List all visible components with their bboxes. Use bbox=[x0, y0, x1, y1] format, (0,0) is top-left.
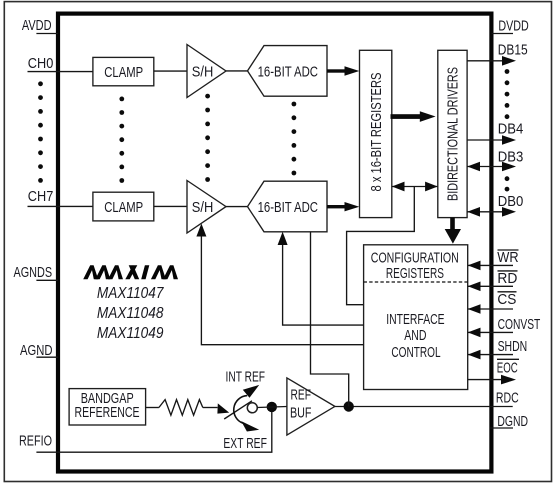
configuration registers / interface and control block bbox=[364, 245, 468, 390]
node dots ADC column bbox=[292, 102, 297, 176]
S/H amplifier 1 bbox=[187, 45, 226, 98]
wire DB4 output arrow bbox=[467, 135, 516, 145]
svg-text:AND: AND bbox=[404, 328, 426, 344]
wire S/H2 to ADC2 bbox=[226, 206, 248, 208]
node dots DB3..DB0 bbox=[505, 176, 510, 191]
ref buffer amplifier bbox=[287, 378, 335, 435]
bus arrow registers to drivers bbox=[391, 111, 436, 122]
wire ref buffer output to ADC2 reference bbox=[311, 232, 349, 407]
svg-text:RD: RD bbox=[497, 271, 517, 287]
wire DB15 output arrow bbox=[467, 56, 516, 66]
switch contact circle bbox=[247, 403, 257, 413]
bidirectional bus arrow registers/drivers bbox=[392, 182, 438, 192]
bus arrow drivers to configuration registers bbox=[445, 218, 461, 244]
svg-text:BUF: BUF bbox=[290, 406, 312, 422]
wire ADC2 control bbox=[278, 232, 364, 325]
svg-text:RDC: RDC bbox=[496, 391, 519, 407]
wire AGNDS stub bbox=[36, 279, 58, 281]
svg-text:AVDD: AVDD bbox=[22, 18, 52, 34]
svg-text:REF: REF bbox=[291, 387, 312, 403]
svg-text:INTERFACE: INTERFACE bbox=[386, 312, 445, 328]
wire AVDD stub bbox=[36, 33, 58, 35]
wire registers tap to interface bbox=[347, 187, 415, 305]
wire CH0 to clamp bbox=[28, 71, 93, 73]
pin RDC bbox=[496, 391, 519, 407]
wire CH7 to clamp bbox=[28, 205, 93, 207]
Maxim logo bbox=[83, 265, 178, 279]
pin DGND bbox=[490, 414, 528, 430]
svg-text:MAX11049: MAX11049 bbox=[97, 325, 164, 342]
wire reference output to RDC bbox=[335, 406, 513, 408]
ADC block 1 (16-BIT ADC) bbox=[248, 46, 328, 97]
node dots CH0..CH7 bbox=[38, 81, 43, 182]
svg-text:S/H: S/H bbox=[192, 200, 214, 216]
clamp block 2 bbox=[93, 192, 154, 221]
wire resistor to switch pole bbox=[203, 407, 218, 409]
svg-text:DB0: DB0 bbox=[498, 194, 524, 210]
bandgap reference block bbox=[69, 389, 146, 425]
svg-text:REGISTERS: REGISTERS bbox=[386, 266, 444, 282]
svg-text:CONVST: CONVST bbox=[498, 317, 541, 333]
svg-text:CLAMP: CLAMP bbox=[104, 65, 143, 81]
svg-text:WR: WR bbox=[497, 250, 518, 266]
svg-text:SHDN: SHDN bbox=[498, 339, 528, 355]
junction dot ref buffer input bbox=[267, 402, 277, 412]
resistor (reference series) bbox=[159, 400, 203, 416]
wire switch to ref buffer bbox=[257, 407, 287, 408]
switch arrowhead INT REF bbox=[243, 385, 259, 398]
svg-text:EXT REF: EXT REF bbox=[223, 436, 267, 452]
junction dot ref buffer output bbox=[344, 401, 354, 411]
svg-text:DVDD: DVDD bbox=[498, 19, 528, 35]
svg-text:CLAMP: CLAMP bbox=[104, 200, 143, 216]
svg-text:16-BIT ADC: 16-BIT ADC bbox=[258, 64, 318, 80]
wire S/H2 control bbox=[196, 224, 363, 345]
wire clamp1 to S/H1 bbox=[154, 70, 187, 72]
clamp block 1 bbox=[93, 57, 154, 85]
svg-text:8 x 16-BIT REGISTERS: 8 x 16-BIT REGISTERS bbox=[369, 72, 385, 191]
switch arrowhead EXT REF bbox=[241, 421, 259, 431]
svg-text:CH0: CH0 bbox=[28, 56, 54, 72]
wire DB3 bidirectional arrow bbox=[467, 162, 516, 172]
wire DVDD stub bbox=[491, 33, 513, 35]
node dots DB15..DB4 bbox=[505, 69, 510, 119]
node dots S/H column bbox=[205, 94, 210, 182]
ADC block 2 (16-BIT ADC) bbox=[248, 181, 328, 232]
wire bandgap to resistor bbox=[146, 407, 159, 409]
wire REFIO to ref buffer input bbox=[36, 407, 271, 452]
svg-text:REFERENCE: REFERENCE bbox=[75, 405, 140, 421]
svg-text:DB4: DB4 bbox=[498, 121, 524, 137]
svg-text:CONFIGURATION: CONFIGURATION bbox=[371, 250, 459, 266]
wire AGND stub bbox=[36, 356, 58, 358]
node dots clamp column bbox=[119, 97, 124, 183]
chip outline (IC boundary) bbox=[58, 14, 491, 472]
register bank (8 x 16-BIT REGISTERS) bbox=[360, 50, 392, 217]
svg-text:MAX11047: MAX11047 bbox=[97, 285, 165, 302]
pin WR (active low) bbox=[468, 250, 519, 270]
svg-text:CH7: CH7 bbox=[28, 189, 54, 205]
pin RD (active low) bbox=[468, 271, 518, 291]
svg-text:INT REF: INT REF bbox=[226, 370, 266, 386]
svg-text:EOC: EOC bbox=[497, 361, 518, 377]
S/H amplifier 2 bbox=[187, 181, 226, 234]
svg-text:REFIO: REFIO bbox=[19, 434, 52, 450]
svg-text:S/H: S/H bbox=[192, 64, 214, 80]
bus arrow ADC1 to registers bbox=[327, 66, 359, 75]
svg-text:16-BIT ADC: 16-BIT ADC bbox=[258, 200, 318, 216]
svg-text:MAX11048: MAX11048 bbox=[97, 305, 164, 322]
switch pole arrowhead bbox=[217, 403, 229, 413]
bidirectional drivers block bbox=[438, 50, 467, 217]
switch lever bbox=[224, 401, 252, 419]
switch arc INT/EXT REF bbox=[234, 396, 247, 424]
svg-text:AGNDS: AGNDS bbox=[14, 265, 53, 281]
pin SHDN bbox=[468, 339, 528, 359]
svg-text:CONTROL: CONTROL bbox=[391, 345, 440, 361]
pin EOC (active low) bbox=[468, 359, 519, 384]
pin CS (active low) bbox=[468, 292, 517, 314]
svg-text:BIDIRECTIONAL DRIVERS: BIDIRECTIONAL DRIVERS bbox=[446, 67, 462, 201]
wire S/H1 to ADC1 bbox=[226, 70, 248, 72]
bus arrow ADC2 to registers bbox=[327, 202, 359, 211]
svg-text:CS: CS bbox=[497, 292, 516, 308]
svg-text:DB3: DB3 bbox=[498, 149, 524, 165]
wire clamp2 to S/H2 bbox=[154, 205, 187, 207]
pin CONVST bbox=[468, 317, 541, 337]
svg-text:DB15: DB15 bbox=[498, 42, 528, 58]
wire DB0 bidirectional arrow bbox=[467, 207, 516, 217]
